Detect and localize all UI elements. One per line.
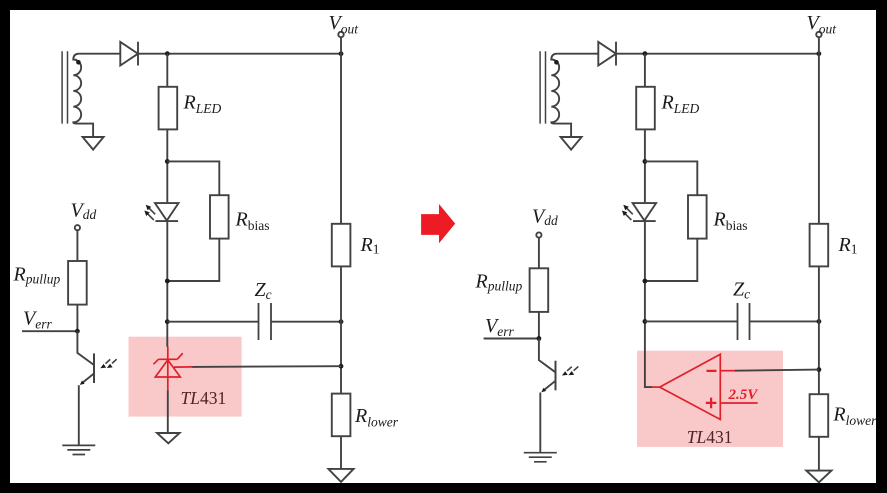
terminal Vdd (right) bbox=[536, 232, 541, 237]
wire TL431 anode to ground bbox=[167, 390, 169, 433]
wire R_LED to LED node (right) bbox=[644, 129, 646, 202]
light arrows into phototransistor (left) bbox=[106, 359, 117, 363]
wire R_bias bottom to node (right) bbox=[645, 239, 697, 281]
resistor R_bias (right) bbox=[688, 195, 707, 238]
transformer polarity dot bbox=[76, 60, 81, 65]
wire R_LED to LED node bbox=[166, 129, 168, 202]
transformer T1 winding bbox=[73, 54, 93, 137]
wire node to Zc left plate (right) bbox=[645, 320, 738, 322]
highlight box around right TL431 bbox=[637, 351, 783, 447]
wire winding to diode (right) bbox=[557, 53, 598, 55]
ground (phototransistor, right, earth style) bbox=[524, 453, 557, 462]
svg-text:TL431: TL431 bbox=[687, 427, 733, 447]
node: rail / R_LED junction bbox=[165, 51, 170, 56]
resistor R_LED (right) bbox=[636, 87, 655, 130]
wire diode to Vout rail (right) bbox=[616, 53, 819, 55]
TL431 op-amp symbol (right) bbox=[652, 354, 758, 419]
highlight box around left TL431 bbox=[129, 337, 242, 417]
node: Zc left junction (right) bbox=[643, 319, 648, 324]
resistor R_pullup (left) bbox=[68, 261, 87, 305]
wire R1 bottom to R_lower (right) bbox=[818, 266, 820, 394]
terminal Vout (right) bbox=[816, 32, 821, 37]
wire Vout down to R1 bbox=[340, 54, 342, 224]
terminal Vdd (left) bbox=[75, 225, 80, 230]
light arrows into phototransistor (right) bbox=[567, 367, 578, 371]
wire Vdd to R_pullup (right) bbox=[538, 238, 540, 269]
wire winding to diode bbox=[79, 53, 120, 55]
wire Vout down to R1 (right) bbox=[818, 54, 820, 224]
wire node to R_bias top (right) bbox=[645, 161, 697, 195]
svg-text:2.5V: 2.5V bbox=[728, 387, 760, 403]
resistor R_bias (left) bbox=[210, 195, 229, 238]
ground (phototransistor, left, earth style) bbox=[62, 445, 95, 454]
wire R_lower to ground (right) bbox=[818, 437, 820, 471]
node: feedback junction (right) bbox=[817, 367, 822, 372]
transformer T1 core bbox=[62, 51, 67, 123]
terminal Vout (left) bbox=[338, 32, 343, 37]
node: Zc / R1 junction (right) bbox=[817, 319, 822, 324]
resistor R_LED (left) bbox=[159, 87, 178, 130]
wire R_lower to ground bbox=[340, 436, 342, 469]
svg-text:TL431: TL431 bbox=[181, 388, 227, 408]
resistor R_lower (right) bbox=[810, 394, 829, 437]
LED emission arrows (right) bbox=[625, 208, 633, 220]
diode D2 bbox=[598, 42, 616, 66]
TL431 reference wire (left) bbox=[192, 365, 341, 368]
LED emission arrows (left) bbox=[148, 208, 156, 220]
ground (TL431, left) bbox=[157, 433, 180, 443]
node: LED / R_bias bottom junction (right) bbox=[643, 279, 648, 284]
capacitor Zc (right) bbox=[738, 303, 750, 340]
resistor R1 (left) bbox=[332, 224, 351, 267]
node: Zc / R1 junction bbox=[339, 319, 344, 324]
capacitor Zc (left) bbox=[259, 303, 272, 340]
node: Verr junction bbox=[75, 329, 80, 334]
wire diode to Vout rail bbox=[138, 53, 341, 55]
node: LED / R_bias bottom junction bbox=[165, 279, 170, 284]
wire LED cathode down bbox=[166, 221, 168, 347]
wire junction to R_LED (right) bbox=[644, 54, 646, 87]
wire Verr (right) bbox=[484, 338, 539, 340]
wire emitter to ground bbox=[78, 385, 80, 445]
transformer T2 core bbox=[540, 51, 545, 123]
node: Zc left junction bbox=[165, 319, 170, 324]
TL431 shunt regulator (left, zener symbol) bbox=[154, 347, 183, 391]
ground (R_lower, left) bbox=[328, 469, 353, 482]
node: rail / Vout junction (right) bbox=[817, 51, 822, 56]
node: rail / Vout junction bbox=[339, 51, 344, 56]
transformer T2 winding bbox=[551, 54, 571, 137]
resistor R_pullup (right) bbox=[530, 268, 549, 312]
phototransistor Q1 (left) bbox=[77, 331, 94, 365]
resistor R1 (right) bbox=[810, 224, 829, 267]
wire R_pullup to Verr node (right) bbox=[538, 312, 540, 339]
TL431 inverting input wire (right) bbox=[735, 370, 819, 371]
node: feedback junction bbox=[339, 364, 344, 369]
wire Zc right plate to R1 line bbox=[271, 321, 341, 323]
wire node to R_bias top bbox=[167, 161, 219, 195]
red transformation arrow bbox=[421, 204, 455, 243]
wire Zc right plate to R1 line (right) bbox=[750, 320, 819, 322]
node: R_LED / R_bias junction (right) bbox=[643, 159, 648, 164]
wire Vdd to R_pullup bbox=[76, 230, 78, 261]
ground (R_lower, right) bbox=[806, 471, 831, 483]
node: Verr junction (right) bbox=[537, 336, 542, 341]
frame border bbox=[0, 0, 887, 10]
node: rail / R_LED junction (right) bbox=[643, 51, 648, 56]
wire emitter to ground (right) bbox=[539, 393, 541, 453]
wire node to Zc left plate bbox=[167, 321, 258, 323]
wire junction to R_LED bbox=[166, 54, 168, 87]
ground (transformer, left) bbox=[83, 137, 104, 150]
ground (transformer, right) bbox=[561, 137, 582, 150]
LED of optocoupler (left) bbox=[155, 203, 179, 220]
wire Verr bbox=[22, 330, 77, 332]
wire LED cathode down to op-amp output (right) bbox=[645, 221, 652, 387]
wire R1 bottom to R_lower bbox=[340, 266, 342, 393]
transformer polarity dot (right) bbox=[554, 60, 559, 65]
node: R_LED / R_bias junction bbox=[165, 159, 170, 164]
resistor R_lower (left) bbox=[332, 394, 351, 437]
LED of optocoupler (right) bbox=[633, 203, 657, 220]
wire R_pullup to Verr node bbox=[76, 305, 78, 332]
diode D1 bbox=[120, 42, 138, 66]
wire R_bias bottom to node bbox=[167, 239, 219, 281]
phototransistor Q2 (right) bbox=[539, 339, 556, 373]
